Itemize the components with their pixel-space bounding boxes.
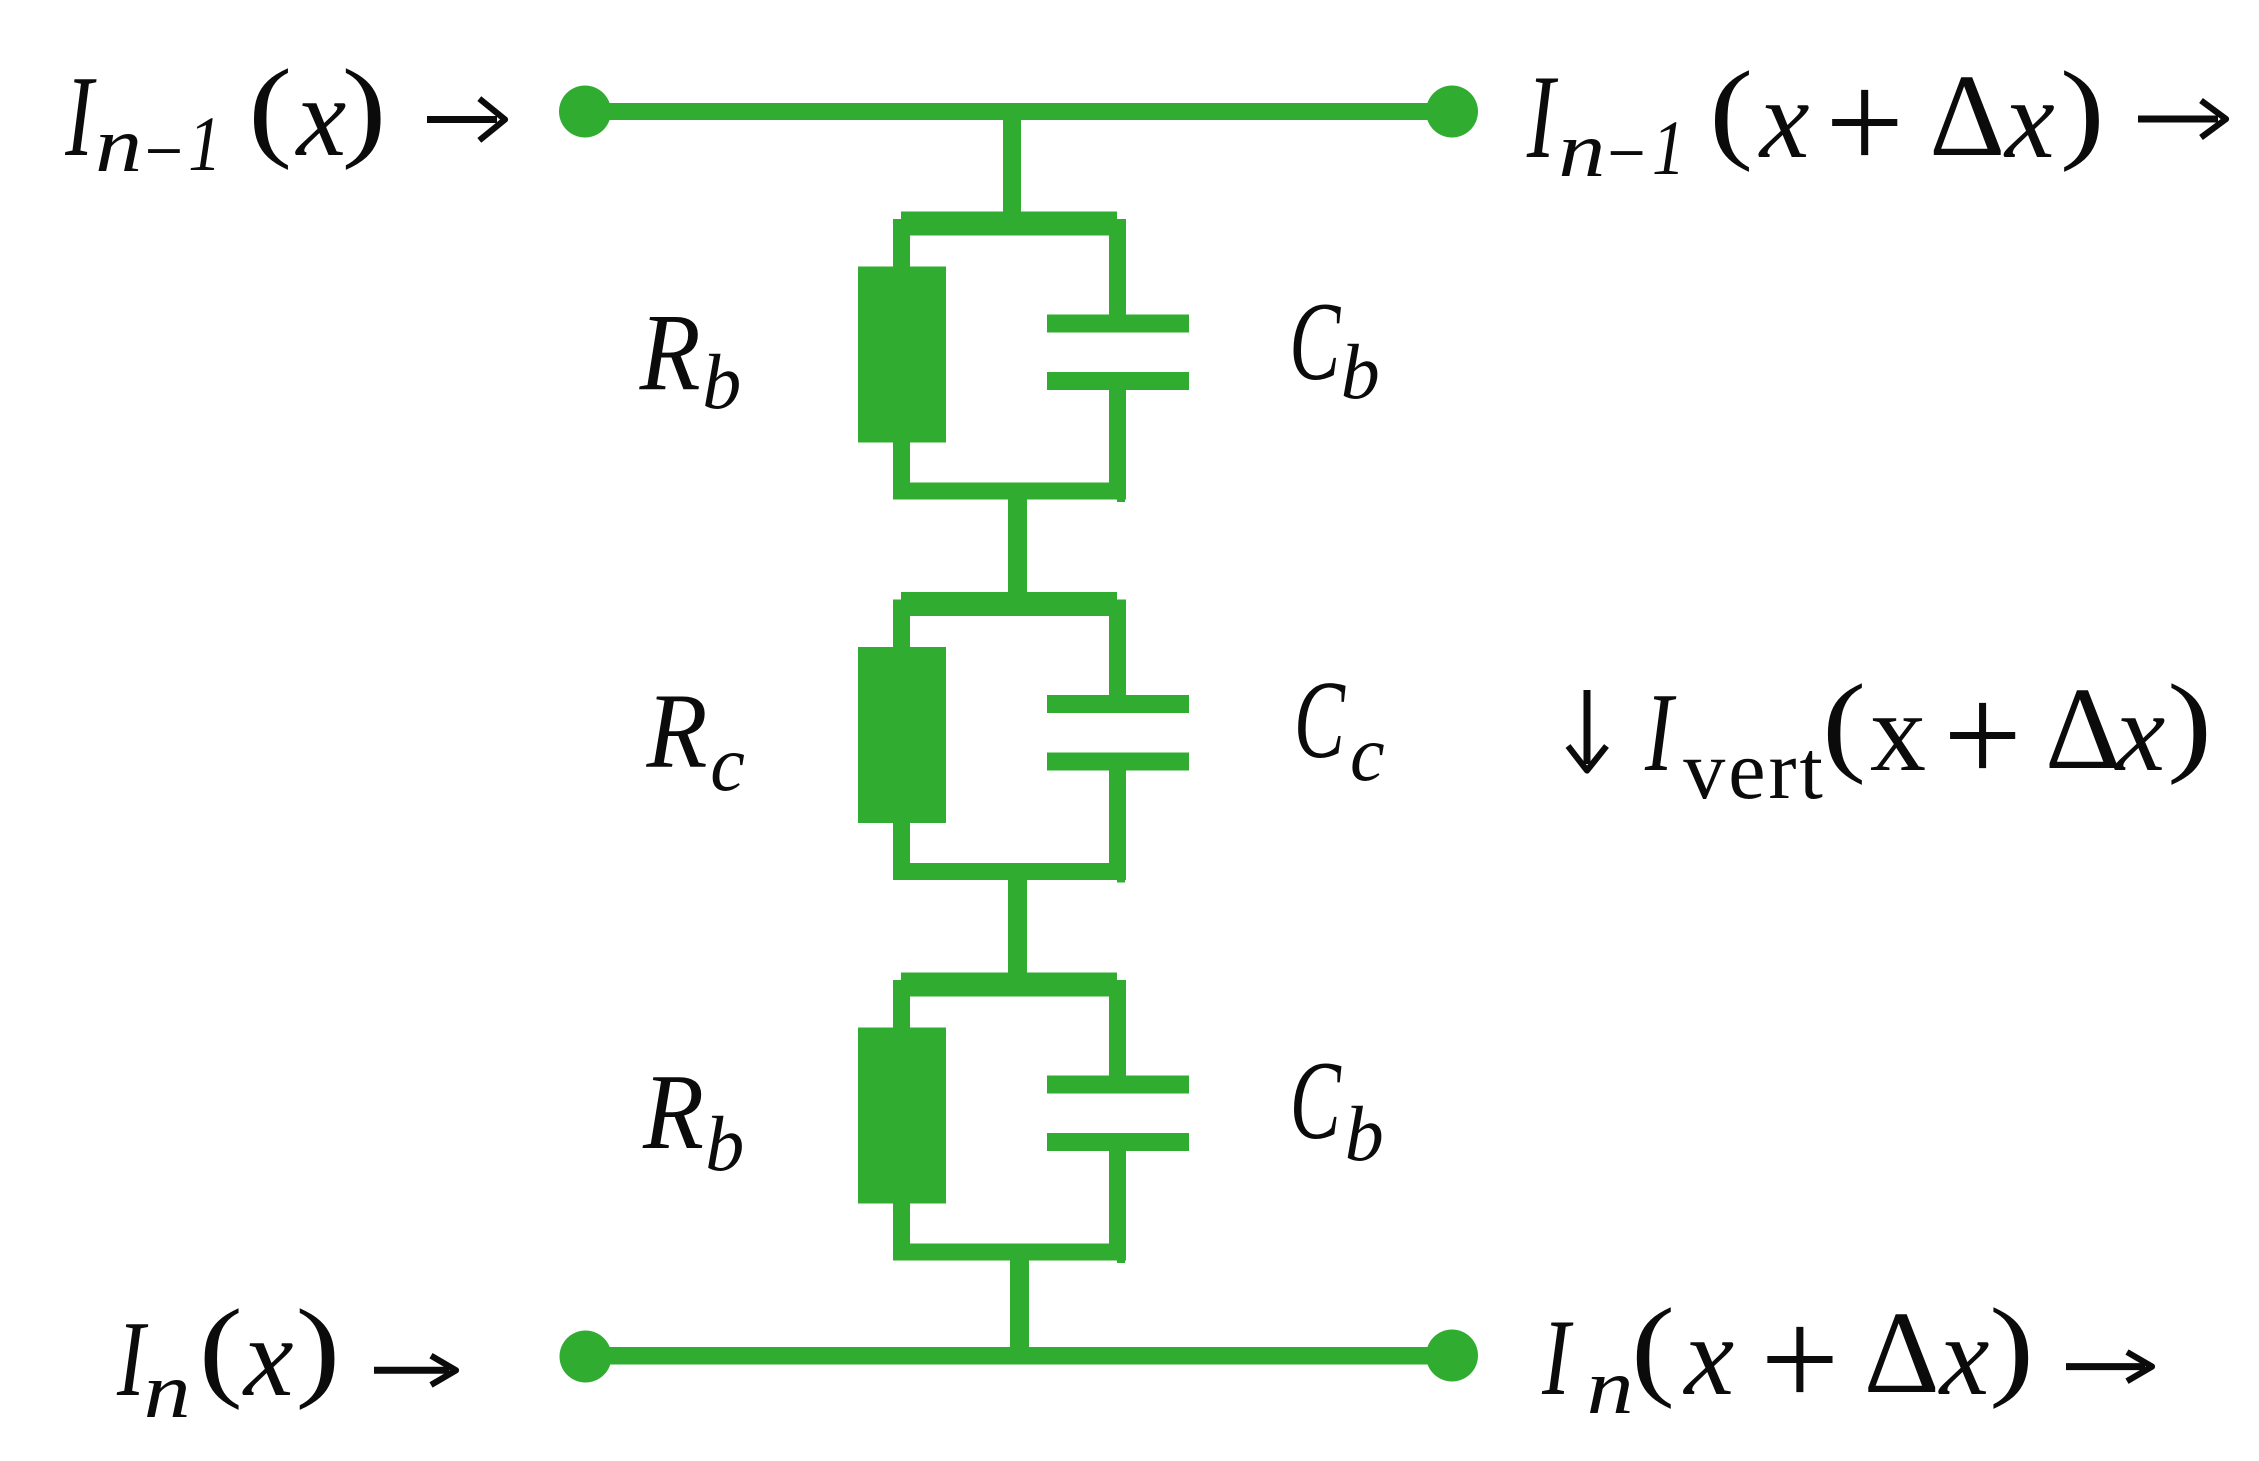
svg-text:x: x — [1758, 58, 1810, 182]
svg-text:x: x — [1938, 1295, 1990, 1419]
svg-text:n: n — [1587, 1343, 1634, 1430]
svg-text:I: I — [1526, 50, 1558, 183]
svg-text:Δ: Δ — [1864, 1287, 1940, 1418]
svg-text:(: ( — [199, 1287, 243, 1411]
svg-text:n: n — [95, 101, 142, 188]
svg-text:): ) — [2167, 662, 2212, 786]
svg-text:Δ: Δ — [1929, 50, 2005, 181]
svg-text:+: + — [1825, 45, 1904, 200]
svg-text:x: x — [2114, 671, 2166, 795]
svg-text:n: n — [1558, 106, 1605, 193]
svg-text:+: + — [1943, 658, 2022, 813]
svg-text:I: I — [65, 53, 98, 181]
svg-text:x: x — [2003, 58, 2055, 182]
svg-text:): ) — [1989, 1286, 2034, 1410]
svg-text:I: I — [1541, 1297, 1573, 1418]
svg-text:(: ( — [248, 47, 292, 171]
svg-text:b: b — [1341, 328, 1380, 415]
svg-text:): ) — [2060, 49, 2105, 173]
svg-text:1: 1 — [188, 100, 221, 187]
svg-text:−: − — [1603, 109, 1649, 196]
svg-text:R: R — [646, 673, 708, 791]
svg-text:): ) — [342, 47, 387, 171]
svg-text:(: ( — [1709, 49, 1753, 173]
svg-text:C: C — [1289, 280, 1341, 404]
svg-text:(: ( — [1822, 662, 1866, 786]
svg-text:x: x — [1682, 1295, 1734, 1419]
svg-text:vert: vert — [1683, 724, 1826, 817]
svg-text:Δ: Δ — [2045, 663, 2121, 794]
svg-text:1: 1 — [1652, 104, 1685, 191]
svg-text:(: ( — [1631, 1286, 1675, 1410]
svg-text:b: b — [705, 1100, 744, 1187]
svg-text:R: R — [639, 291, 701, 413]
svg-text:c: c — [710, 720, 745, 807]
svg-text:C: C — [1290, 1039, 1342, 1163]
svg-text:R: R — [642, 1053, 704, 1172]
svg-text:C: C — [1294, 659, 1346, 782]
svg-text:x: x — [1870, 671, 1926, 795]
svg-text:c: c — [1350, 710, 1385, 797]
svg-text:b: b — [702, 338, 741, 425]
svg-text:x: x — [242, 1296, 294, 1420]
svg-text:I: I — [1644, 671, 1676, 795]
svg-text:x: x — [295, 56, 347, 180]
svg-text:+: + — [1760, 1282, 1839, 1437]
svg-text:−: − — [140, 107, 186, 194]
svg-text:): ) — [295, 1287, 340, 1411]
svg-text:n: n — [144, 1347, 191, 1434]
svg-text:b: b — [1345, 1090, 1384, 1177]
